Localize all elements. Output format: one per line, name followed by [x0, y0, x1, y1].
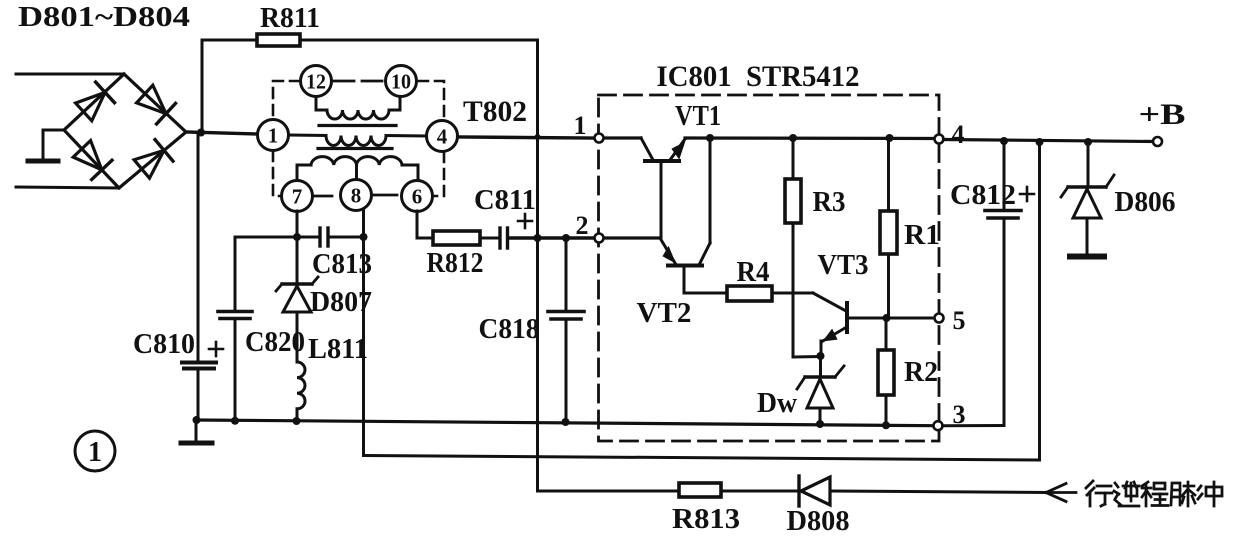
junction pin5 node R1 R2	[883, 314, 891, 322]
wire bridge diamond edges	[64, 74, 186, 188]
pin 3 of IC801	[934, 400, 966, 430]
arrow pulse input direction	[1046, 484, 1076, 502]
wire D808 to pulse input	[830, 491, 1046, 493]
svg-text:VT1: VT1	[675, 101, 721, 132]
wire terminal 7 down	[296, 211, 299, 237]
wire R811 rail down (x=537)	[536, 40, 539, 491]
label C820	[245, 327, 305, 358]
wire dashed link pins 12-10	[334, 80, 384, 83]
transistor VT1	[641, 138, 685, 161]
svg-text:R811: R811	[260, 2, 320, 34]
wire C810 top lead	[197, 133, 200, 361]
junction R2 bottom ground	[882, 421, 890, 429]
winding T802 primary (pins 1-4)	[289, 135, 426, 146]
terminal 7 of T802	[282, 181, 313, 212]
svg-text:12: 12	[306, 70, 326, 94]
pin 4 of IC801	[935, 120, 965, 149]
wire pin3 to C812 column	[943, 424, 1005, 427]
terminal 8 of T802	[341, 180, 372, 211]
wire IC pin2 to VT2	[603, 236, 660, 239]
IC801 STR5412 dashed outline	[599, 95, 940, 441]
svg-text:4: 4	[952, 120, 965, 149]
label 行逆程脉冲 (horizontal retrace pulse)	[1086, 481, 1222, 506]
core T802 lamination lines	[318, 126, 396, 149]
svg-text:1: 1	[88, 437, 102, 468]
svg-text:C810: C810	[133, 329, 195, 360]
svg-text:VT3: VT3	[818, 250, 869, 281]
terminal 4 of T802	[427, 121, 458, 152]
label Dw	[757, 388, 798, 419]
junction top rail R1	[886, 134, 894, 142]
wire D807 to L811	[296, 312, 299, 362]
pin 2 of IC801	[576, 211, 604, 243]
capacitor C818	[548, 312, 584, 320]
wire R812 to C811	[480, 237, 497, 240]
junction R811 line crosses winding-4 wire	[535, 134, 541, 140]
svg-text:8: 8	[351, 184, 362, 208]
svg-text:R4: R4	[737, 257, 770, 288]
svg-text:7: 7	[292, 185, 303, 209]
label R1	[904, 220, 940, 251]
junction L811 ground	[293, 417, 301, 425]
svg-text:D808: D808	[787, 505, 850, 537]
capacitor C810	[182, 363, 216, 369]
wire AC input bottom	[16, 187, 119, 188]
svg-text:1: 1	[574, 111, 587, 140]
wire VT2 base to R4	[684, 267, 727, 293]
label R3	[813, 187, 846, 218]
wire C812 down to pin3 wire	[1003, 219, 1006, 426]
wire D806 top lead	[1087, 142, 1090, 186]
junction pin8 with C813	[360, 233, 368, 241]
wire VT2 collector up to rail	[709, 138, 712, 243]
wire D806 to ground	[1086, 218, 1089, 255]
transistor VT2	[660, 238, 710, 266]
wire dashed link pins 7-8	[314, 195, 340, 198]
svg-text:R812: R812	[427, 248, 484, 279]
svg-text:C818: C818	[479, 314, 540, 345]
transistor VT3	[822, 303, 884, 342]
svg-text:C812: C812	[950, 180, 1016, 211]
junction +B rail D806	[1084, 138, 1092, 146]
capacitor C812	[985, 211, 1021, 219]
label R2	[904, 357, 938, 388]
junction bridge output node	[197, 129, 205, 137]
svg-text:T802: T802	[463, 95, 527, 128]
wire D807 top lead	[296, 237, 299, 283]
diode D808	[799, 476, 830, 506]
junction C810 ground	[193, 416, 201, 424]
capacitor C820	[218, 312, 252, 319]
label T802	[463, 95, 527, 128]
inductor L811	[297, 362, 305, 421]
resistor R812	[433, 231, 480, 245]
diode D804 (bottom-right bridge arm)	[133, 140, 173, 180]
wire R4 to VT3 base	[772, 293, 846, 311]
label C811	[474, 185, 536, 216]
wire C810 to ground rail	[197, 369, 200, 420]
resistor R811	[257, 34, 300, 46]
node bridge + output wire	[186, 132, 257, 134]
wire dashed outline left-top of T802	[273, 81, 300, 119]
label VT3	[818, 250, 869, 281]
diode D802 (top-right bridge arm)	[135, 84, 175, 124]
resistor R1 leads	[887, 138, 890, 318]
pin 1 of IC801	[574, 111, 604, 143]
junction pin2 node with C818	[562, 234, 570, 242]
wire VT1 base down	[660, 163, 663, 238]
wire dashed outline right-bottom of T802	[434, 152, 444, 196]
terminal +B output	[1153, 137, 1162, 146]
label L811	[308, 334, 368, 365]
label D808	[787, 505, 850, 537]
terminal 10 of T802	[386, 66, 417, 97]
svg-text:+B: +B	[1139, 98, 1186, 131]
ground (main rail)	[181, 420, 212, 443]
junction top rail R3	[789, 134, 797, 142]
svg-text:R813: R813	[672, 503, 740, 535]
label IC801 STR5412	[657, 60, 860, 93]
label C812	[950, 180, 1016, 211]
wire top rail through R811	[202, 39, 538, 42]
svg-text:D801~D804: D801~D804	[18, 2, 190, 33]
wire VT3 emitter down	[820, 341, 823, 356]
resistor R4	[727, 286, 772, 301]
resistor R2 leads	[885, 318, 888, 426]
wire pin7 node to C820	[235, 236, 297, 239]
wire R813 row from pin2 column	[538, 490, 680, 493]
diode D807 (zener)	[276, 277, 318, 312]
svg-text:R1: R1	[904, 220, 940, 251]
wire C811 to IC pin2	[510, 236, 594, 239]
winding T802 auxiliary (pins 12-10)	[316, 97, 400, 119]
capacitor C813	[301, 228, 363, 246]
junction top rail VT2 collector	[706, 134, 714, 142]
wire dashed link pins 8-6	[373, 194, 400, 197]
wire pin4 to +B terminal	[944, 140, 1154, 142]
wire Dw top lead	[819, 356, 822, 377]
label C818	[479, 314, 540, 345]
svg-text:5: 5	[953, 306, 966, 335]
terminal 1 of T802	[258, 120, 289, 151]
wire IC pin1 to VT1	[603, 136, 641, 139]
label VT2	[637, 298, 692, 329]
wire pin8 loop bottom	[364, 456, 1040, 461]
diode D801 (top-left bridge arm)	[74, 82, 114, 122]
wire VT3 collector to pin5	[884, 317, 934, 320]
plus sign C812 polarity	[1020, 187, 1034, 201]
terminal 6 of T802	[402, 181, 433, 212]
junction +B rail C812	[1000, 137, 1008, 145]
svg-text:Dw: Dw	[757, 388, 798, 419]
label VT1	[675, 101, 721, 132]
label C810	[133, 329, 195, 360]
junction C818 ground	[562, 418, 570, 426]
resistor R3	[785, 179, 801, 223]
wire C820 down lead	[234, 237, 237, 310]
diode Dw (zener)	[797, 366, 844, 408]
ground (bridge input)	[28, 159, 58, 164]
resistor R1	[880, 211, 897, 254]
pin 5 of IC801	[935, 306, 966, 335]
wire C812 top lead	[1003, 141, 1006, 209]
resistor R2	[878, 350, 894, 395]
svg-text:1: 1	[268, 124, 279, 148]
wire dashed outline right-top of T802	[418, 81, 444, 120]
wire main ground rail	[196, 420, 933, 426]
svg-text:R3: R3	[813, 187, 846, 218]
wire C818 top lead	[565, 238, 568, 310]
svg-text:C811: C811	[474, 185, 536, 216]
diode D803 (bottom-left bridge arm)	[72, 139, 112, 179]
wire AC input top	[16, 73, 124, 76]
wire terminal 6 down to R812	[417, 211, 433, 238]
label D806	[1115, 187, 1176, 218]
svg-text:4: 4	[437, 125, 448, 149]
wire pin8 loop right riser	[1038, 142, 1041, 460]
wire terminal 8 down	[362, 209, 365, 456]
diode D806 (zener)	[1061, 175, 1114, 218]
label R811	[260, 2, 320, 34]
figure number 1 badge	[75, 431, 115, 471]
winding T802 feedback (pins 7-8-6)	[297, 157, 418, 179]
resistor R3 leads	[793, 138, 820, 357]
svg-text:D806: D806	[1115, 187, 1176, 218]
label R812	[427, 248, 484, 279]
wire node up to R811	[201, 40, 204, 132]
junction C820 ground	[231, 417, 239, 425]
label R813	[672, 503, 740, 535]
terminal 12 of T802	[301, 66, 332, 97]
svg-text:6: 6	[412, 185, 423, 209]
label D807	[310, 287, 372, 318]
wire C820 to ground rail	[234, 320, 237, 421]
svg-text:R2: R2	[904, 357, 938, 388]
wire dashed outline left-bottom of T802	[273, 151, 281, 196]
wire C818 to ground rail	[565, 320, 568, 422]
resistor R813	[679, 483, 721, 497]
junction pin7 node	[293, 233, 301, 241]
wire VT1 internal top rail	[685, 136, 934, 140]
junction VT3 emitter with R3	[817, 352, 825, 360]
svg-text:IC801 STR5412: IC801 STR5412	[657, 60, 860, 93]
svg-text:10: 10	[391, 70, 411, 94]
wire R813 to D808	[721, 490, 799, 493]
label R4	[737, 257, 770, 288]
junction +B rail loop riser	[1036, 138, 1044, 146]
junction Dw ground	[816, 420, 824, 428]
capacitor C811	[500, 228, 508, 248]
label D801~D804	[18, 2, 190, 33]
junction pin2 node with R811 line	[534, 234, 542, 242]
wire bridge AC to ground	[43, 130, 64, 158]
ground (D806)	[1070, 254, 1104, 260]
plus sign C810 polarity	[209, 342, 223, 356]
wire Dw to ground rail	[819, 408, 822, 424]
label +B	[1139, 98, 1186, 131]
svg-text:L811: L811	[308, 334, 368, 365]
plus sign C811 polarity	[518, 214, 532, 228]
label C813	[312, 249, 372, 280]
svg-text:2: 2	[576, 211, 589, 240]
svg-text:VT2: VT2	[637, 298, 692, 329]
wire terminal 4 to IC pin1	[458, 137, 594, 138]
